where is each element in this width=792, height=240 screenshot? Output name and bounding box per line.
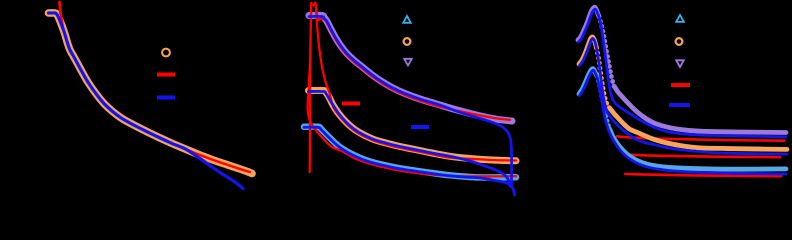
panel2 legend red line key — [342, 102, 360, 106]
panel2 blue theory curve bottom group with plunge — [304, 127, 515, 195]
panel2 red theory curve top group — [315, 3, 510, 120]
panel2 cyan marker band bottom group — [304, 127, 516, 178]
panel 2 plot area — [304, 3, 516, 196]
panel 3 plot area — [578, 7, 787, 176]
panel1 blue theory line — [49, 13, 244, 189]
panel3 legend orange circle marker — [676, 38, 683, 45]
panel2 blue theory curve top group with plunge — [309, 16, 512, 187]
panel3 legend red line key — [671, 83, 690, 87]
panel 1 plot area — [49, 2, 253, 189]
panel2 purple marker band top group — [309, 15, 512, 121]
panel3 cyan marker band bottom group — [579, 69, 597, 94]
panel1 legend red line key — [157, 73, 175, 77]
panel3 legend cyan triangle-up marker — [676, 15, 684, 22]
panel3 legend purple triangle-down marker — [676, 60, 684, 67]
panel3 blue theory curve bottom group — [580, 70, 787, 174]
panel3 red theory curve middle group — [628, 155, 780, 158]
panel3 red theory curve top group — [617, 136, 784, 140]
panel3 blue theory curve top group — [579, 9, 787, 137]
panel2 red theory spike top — [311, 3, 315, 6]
panel3 red theory curve bottom group — [625, 174, 781, 176]
panel1 orange marker band equilibrium correlator — [49, 13, 253, 174]
panel2 legend blue line key — [411, 125, 429, 129]
panel2 blue theory curve middle group with plunge — [309, 91, 511, 186]
panel3 orange marker band middle group — [579, 37, 597, 64]
panel1 red theory spike — [60, 2, 61, 14]
panel2 legend purple triangle-down marker — [404, 59, 412, 66]
panel2 orange marker band middle group — [309, 90, 517, 160]
panel2 red theory rising edge — [310, 3, 312, 172]
panel2 red theory curve bottom group — [308, 55, 516, 176]
panel3 blue theory curve middle group — [580, 38, 788, 154]
panel1 legend orange circle marker — [162, 49, 170, 57]
panel3 legend blue line key — [669, 103, 690, 107]
panel2 red theory curve middle group — [316, 8, 516, 161]
panel1 legend blue line key — [157, 96, 175, 100]
panel2 legend cyan triangle-up marker — [403, 16, 411, 23]
panel2 legend orange circle marker — [404, 38, 411, 45]
panel3 purple marker band top group — [578, 7, 599, 40]
panel1 red theory line — [61, 14, 250, 173]
